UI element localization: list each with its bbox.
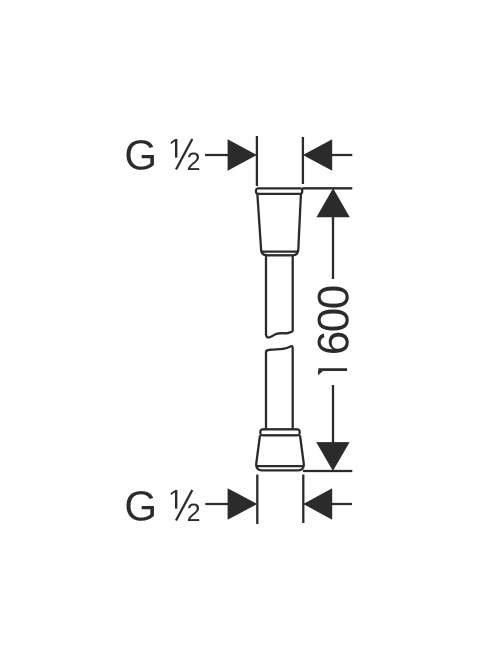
value 1600 (318, 287, 349, 376)
hose upper segment right wall (292, 256, 294, 331)
leader line left (bottom dimension) (205, 503, 228, 505)
dimension line lower segment (1600) (332, 385, 334, 443)
label G 1/2 (bottom) (127, 490, 200, 521)
arrowhead right pointing left (bottom dimension) (303, 488, 332, 520)
extension line left (top dimension) (256, 136, 258, 186)
arrowhead left pointing right (top dimension) (228, 139, 257, 171)
fraction slash (bottom) (176, 490, 192, 521)
leader line left (top dimension) (205, 154, 229, 156)
hose lower segment left wall (265, 352, 267, 429)
leader line right (top dimension) (331, 154, 352, 156)
top hose nut: conical body (257, 194, 301, 255)
dimension line upper segment (1600) (332, 216, 334, 279)
bottom hose nut: top band (260, 429, 299, 435)
extension line right (bottom dimension) (302, 475, 304, 524)
extension line left (bottom dimension) (256, 475, 258, 525)
label G 1/2 (top) (127, 139, 200, 170)
fraction slash (top) (176, 139, 192, 170)
arrowhead right pointing left (top dimension) (303, 139, 332, 171)
arrowhead up (1600 dimension) (316, 188, 349, 217)
top hose nut: top face (256, 188, 302, 194)
hose lower break edge (266, 346, 293, 352)
hose upper segment left wall (265, 256, 267, 335)
leader line right (bottom dimension) (331, 503, 352, 505)
bottom hose nut: conical body (256, 435, 304, 470)
hose upper break edge (266, 331, 293, 337)
top hose nut: bottom rim line (262, 250, 297, 252)
arrowhead left pointing right (bottom dimension) (228, 488, 258, 520)
extension line right (top dimension) (302, 137, 304, 184)
bottom hose nut: bottom rim line (257, 465, 303, 467)
arrowhead down (1600 dimension) (316, 442, 349, 471)
hose lower segment right wall (292, 348, 294, 429)
reference line bottom (1600 dimension) (303, 470, 352, 472)
reference line top (1600 dimension) (302, 187, 352, 189)
